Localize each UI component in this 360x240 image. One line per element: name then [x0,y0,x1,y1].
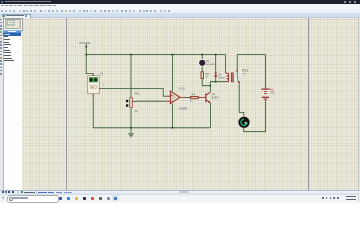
wire relay pole to motor [239,83,244,117]
start button [1,196,4,199]
active tab [2,14,31,19]
wire emitter down [209,103,211,128]
sheet border left [66,17,67,191]
window right edge [358,17,359,190]
svg-text:12V: 12V [270,92,275,95]
wire top power rail [86,54,225,56]
svg-text:RV1: RV1 [135,92,141,96]
devices list [3,33,23,191]
motor M [238,117,249,128]
led D1 [198,59,215,67]
wire motor loop top [237,55,265,89]
svg-text:BC547: BC547 [212,96,220,99]
tray [322,197,324,199]
wire diode branch [215,55,217,82]
wire resistor to base [198,97,200,99]
svg-text:RL1: RL1 [242,68,248,72]
resistor R4 [190,92,198,102]
svg-text:LM358: LM358 [179,107,187,111]
wire sensor output to opamp [101,88,166,96]
wire pot wiper to opamp [134,100,166,102]
menu bar [0,4,360,9]
sheet border right [308,17,309,191]
sensor U1 body [88,73,105,97]
svg-text:1N4007: 1N4007 [218,77,226,79]
mode toolbar [0,17,4,190]
svg-text:U2:A: U2:A [179,87,185,91]
svg-text:5V: 5V [243,74,246,76]
svg-text:R2: R2 [206,72,210,76]
svg-text:2: 2 [102,85,104,87]
svg-text:LED-RED: LED-RED [205,64,215,66]
wire vcc vertical [86,44,93,76]
devices header [3,30,22,33]
wire opamp vplus vertical [172,55,174,92]
title bar [0,0,360,4]
wire pot branch vertical [130,55,132,132]
overview window [3,18,23,31]
wire relay NO down [236,55,238,71]
svg-text:VCC/VDD: VCC/VDD [79,42,90,45]
power terminal arrow [85,46,88,49]
svg-text:U1: U1 [100,73,104,76]
canvas grid background [21,17,360,191]
relay RL1 coil [226,72,234,82]
tab bar [0,13,360,18]
wire opamp out to resistor [183,97,190,99]
wire sensor bottom to ground rail [92,94,94,128]
wire opamp vminus vertical [172,104,174,128]
toolbar [0,8,360,14]
pot RV1 [126,92,140,113]
wire led chain [202,55,210,86]
taskbar icons [0,0,360,1]
wire coil top [225,55,227,73]
battery B1 [261,88,275,100]
diode D2 [214,73,226,80]
wire collector node [210,82,225,92]
panel/canvas boundary [20,17,23,190]
svg-text:D2: D2 [218,73,222,77]
junction dots [85,54,217,129]
wire motor bottom loop [244,100,266,132]
transistor Q1 [200,92,219,103]
search box [7,195,59,202]
svg-text:1k: 1k [206,77,209,79]
svg-text:D1: D1 [206,59,210,63]
opamp U2:A [166,87,187,111]
ground [128,131,134,137]
svg-text:R4: R4 [192,92,196,96]
relay RL1 switch [236,68,248,82]
resistor R2 [201,72,209,79]
svg-text:1k: 1k [135,109,138,113]
wire bottom ground rail [93,127,210,129]
